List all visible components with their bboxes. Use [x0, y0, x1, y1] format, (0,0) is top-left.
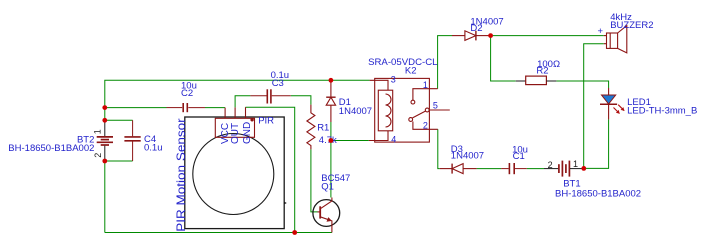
svg-text:D2: D2	[470, 23, 482, 34]
svg-text:1: 1	[573, 159, 578, 169]
wire C2 left segment	[105, 107, 167, 109]
wire left vertical between junctions	[104, 108, 106, 121]
relay K2 SRA-05VDC-CL outline	[375, 78, 430, 142]
junction dot GND on bottom rail	[292, 230, 297, 235]
svg-text:OUT: OUT	[230, 123, 241, 144]
wire left vertical bottom to ground rail	[104, 161, 106, 233]
junction dot D2 cathode node	[488, 33, 493, 38]
svg-text:4: 4	[391, 134, 396, 144]
wire R2 right to LED anode	[556, 81, 608, 88]
svg-text:1N4007: 1N4007	[451, 150, 484, 161]
svg-text:5: 5	[433, 101, 438, 111]
PIR lens circle	[193, 134, 274, 215]
PIR module U1 outline	[185, 117, 284, 229]
PIR pin OUT	[234, 107, 236, 118]
svg-text:Q1: Q1	[321, 182, 334, 193]
svg-text:GND: GND	[242, 122, 253, 144]
wire LED cathode down to BT1 junction	[584, 119, 609, 168]
PIR pin VCC	[224, 108, 226, 119]
PIR header rectangle	[215, 118, 254, 137]
svg-text:3: 3	[391, 75, 396, 85]
relay pin 2 lead	[413, 122, 438, 130]
wire C2 right segment to PIR VCC pin	[205, 107, 225, 109]
capacitor C4	[124, 120, 140, 161]
relay pin 3 lead	[370, 80, 388, 90]
svg-text:1: 1	[423, 80, 428, 90]
wire VCC top rail from left vertical to relay pin 3	[105, 80, 370, 107]
wire D2 cathode to buzzer plus	[489, 35, 604, 37]
diode D3 1N4007	[440, 164, 477, 174]
junction dot VCC left rail / C2	[102, 105, 107, 110]
svg-text:BH-18650-B1BA002: BH-18650-B1BA002	[8, 143, 94, 154]
diode D2 1N4007	[452, 31, 489, 41]
junction dot BT1 pin 1 node	[581, 166, 586, 171]
resistor R2	[516, 80, 526, 82]
svg-text:2: 2	[93, 153, 103, 158]
junction dot BT2 pin 2	[102, 159, 107, 164]
junction dot D1 anode / coil / collector node	[329, 138, 334, 143]
svg-text:K2: K2	[405, 65, 417, 76]
svg-text:2: 2	[548, 160, 553, 170]
PIR pin GND	[245, 107, 247, 118]
wire relay pin 2 down to D3	[438, 129, 440, 168]
battery BT1	[544, 161, 584, 177]
relay switch arm	[413, 111, 426, 118]
svg-text:BH-18650-B1BA002: BH-18650-B1BA002	[555, 189, 641, 200]
svg-text:R1: R1	[317, 123, 329, 134]
svg-text:0.1u: 0.1u	[144, 143, 163, 154]
junction dot BT2 pin 1	[102, 118, 107, 123]
capacitor C2	[167, 103, 206, 112]
relay pin 4 lead	[369, 131, 388, 141]
svg-text:SRA-05VDC-CL: SRA-05VDC-CL	[368, 57, 437, 68]
svg-text:C2: C2	[181, 88, 193, 99]
wire relay pin 1 up to D2 anode	[438, 36, 452, 89]
wire battery BT2 top branch to C4	[105, 119, 133, 121]
capacitor C3	[250, 89, 290, 103]
svg-text:4.7k: 4.7k	[319, 135, 337, 146]
svg-text:PIR: PIR	[258, 115, 274, 126]
PIR origin dot	[250, 118, 253, 121]
wire D1 bottom green segment	[330, 122, 332, 141]
buzzer BUZZER2	[604, 26, 627, 53]
wire node K2 coil pin 4 to D1/collector junction	[331, 140, 369, 142]
wire buzzer minus down to BT1 junction	[584, 44, 604, 169]
wire C1 to BT1 pin 2	[527, 168, 544, 170]
relay pin 1 lead and contact	[413, 89, 438, 100]
wire R1 bottom to Q1 base	[311, 149, 318, 212]
wire junction down to Q1 collector	[330, 141, 332, 198]
wire D3 anode to C1	[477, 168, 502, 170]
relay coil rectangle	[378, 90, 392, 131]
svg-text:PIR Motion Sensor: PIR Motion Sensor	[174, 118, 188, 232]
svg-text:LED-TH-3mm_B: LED-TH-3mm_B	[627, 106, 697, 117]
svg-text:1N4007: 1N4007	[339, 106, 372, 117]
wire C4 bottom branch to battery BT2 bottom	[105, 160, 133, 162]
wire D2 junction down and right to R2	[491, 36, 516, 81]
svg-text:R2: R2	[536, 66, 548, 77]
svg-text:+: +	[598, 26, 604, 37]
wire PIR GND pin to bottom rail	[246, 107, 295, 232]
svg-text:C1: C1	[513, 151, 525, 162]
relay pivot contact	[409, 118, 413, 122]
relay coil arcs	[386, 94, 392, 127]
diode D1 1N4007	[326, 80, 335, 122]
resistor R1	[307, 105, 315, 150]
PIR right edge notch	[284, 202, 287, 205]
wire C3 to R1 top	[291, 96, 311, 105]
transistor Q1 BC547	[313, 198, 340, 233]
battery BT2	[97, 120, 113, 161]
svg-text:BUZZER2: BUZZER2	[610, 20, 653, 31]
wire PIR OUT pin up to C3	[235, 96, 250, 108]
svg-text:2: 2	[423, 121, 428, 131]
relay pin 5 lead and common contact	[429, 109, 450, 111]
LED1	[600, 88, 624, 119]
junction dot D1 cathode on VCC rail	[329, 78, 334, 83]
wire bottom emitter rail	[105, 232, 332, 234]
capacitor C1	[501, 163, 527, 174]
svg-text:C3: C3	[272, 78, 284, 89]
